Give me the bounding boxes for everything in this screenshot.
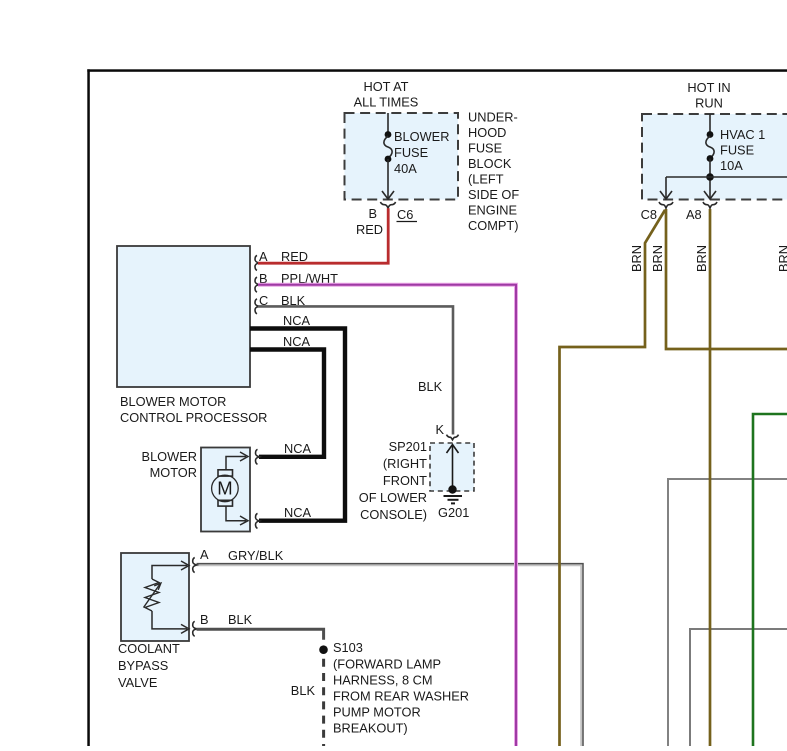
svg-text:BYPASS: BYPASS — [118, 658, 168, 673]
svg-text:BLK: BLK — [418, 379, 443, 394]
svg-text:HOT IN: HOT IN — [687, 80, 730, 95]
svg-text:B: B — [200, 612, 209, 627]
svg-text:G201: G201 — [438, 505, 469, 520]
svg-text:C8: C8 — [641, 207, 657, 222]
svg-text:NCA: NCA — [283, 334, 310, 349]
frame border left — [87, 69, 90, 746]
svg-text:PUMP MOTOR: PUMP MOTOR — [333, 705, 421, 720]
svg-text:S103: S103 — [333, 640, 363, 655]
HVAC fuse block box (dashed) — [642, 114, 787, 200]
svg-text:CONSOLE): CONSOLE) — [360, 507, 427, 522]
svg-text:CONTROL PROCESSOR: CONTROL PROCESSOR — [120, 410, 267, 425]
svg-text:BLOCK: BLOCK — [468, 156, 512, 171]
svg-text:COMPT): COMPT) — [468, 218, 518, 233]
svg-text:M: M — [217, 478, 232, 499]
svg-text:RED: RED — [356, 222, 383, 237]
wire GRY/BLK from valve pin A (horizontal, down right side) — [197, 564, 584, 746]
variable resistor in valve — [144, 561, 190, 633]
wire RED from fuse C6 to processor pin A — [258, 208, 388, 263]
svg-text:A: A — [259, 249, 268, 264]
svg-text:FROM REAR WASHER: FROM REAR WASHER — [333, 689, 469, 704]
splice S103 node — [291, 645, 328, 748]
wire PPL/WHT from processor pin B — [258, 285, 516, 746]
svg-text:FRONT: FRONT — [383, 473, 427, 488]
svg-text:A8: A8 — [686, 207, 702, 222]
svg-text:SIDE OF: SIDE OF — [468, 187, 519, 202]
svg-text:HVAC 1: HVAC 1 — [720, 127, 765, 142]
pin A of processor — [255, 249, 308, 270]
blower motor upper pin NCA — [256, 441, 312, 464]
svg-text:BLOWER: BLOWER — [142, 449, 197, 464]
fuse F1 BLOWER FUSE 40A — [382, 113, 449, 199]
svg-text:COOLANT: COOLANT — [118, 641, 180, 656]
motor M symbol — [212, 452, 248, 525]
junction node in fuse block — [660, 173, 787, 199]
wire BRN from A8 straight down — [709, 209, 712, 746]
svg-text:NCA: NCA — [284, 505, 311, 520]
label S103 (FORWARD LAMP HARNESS, 8 CM FROM REAR WASHER PUMP MOTOR BREAKOUT) — [333, 640, 469, 736]
label HOT AT ALL TIMES — [354, 79, 419, 110]
label HOT IN RUN — [687, 80, 730, 110]
blower motor control processor box — [117, 246, 267, 425]
splice wire with up arrow and ground dot — [447, 445, 459, 494]
connector A8 (female arc) — [686, 202, 717, 222]
svg-text:BREAKOUT): BREAKOUT) — [333, 721, 408, 736]
svg-text:HARNESS, 8 CM: HARNESS, 8 CM — [333, 673, 433, 688]
svg-text:(RIGHT: (RIGHT — [383, 456, 427, 471]
valve pin A — [193, 547, 284, 573]
svg-text:RUN: RUN — [695, 96, 723, 111]
valve pin B — [193, 612, 253, 636]
wire BLK from processor pin C to splice SP201 — [258, 306, 453, 434]
svg-text:BLOWER MOTOR: BLOWER MOTOR — [120, 394, 226, 409]
wire GRY entering right edge at y=479 turning down — [668, 479, 787, 746]
connector K (female arc) — [435, 422, 458, 440]
svg-text:10A: 10A — [720, 158, 743, 173]
frame border top — [87, 69, 787, 72]
svg-text:(FORWARD LAMP: (FORWARD LAMP — [333, 657, 441, 672]
svg-text:40A: 40A — [394, 161, 417, 176]
splice SP201 dashed box — [430, 443, 474, 491]
svg-text:ALL TIMES: ALL TIMES — [354, 95, 419, 110]
svg-text:BLK: BLK — [291, 683, 316, 698]
fuse F2 HVAC 1 FUSE 10A — [706, 114, 765, 198]
pin C of processor — [255, 293, 306, 314]
wire GRN entering right edge turning down — [753, 414, 787, 746]
svg-text:K: K — [435, 422, 444, 437]
svg-text:OF LOWER: OF LOWER — [359, 490, 427, 505]
svg-text:(LEFT: (LEFT — [468, 172, 504, 187]
svg-text:BRN: BRN — [629, 245, 644, 272]
svg-text:BLOWER: BLOWER — [394, 129, 449, 144]
wire NCA 2 from processor to blower motor upper pin — [250, 334, 324, 457]
svg-text:NCA: NCA — [284, 441, 311, 456]
wire GRY entering right edge at y=629 turning down — [690, 629, 787, 746]
blower motor box — [142, 448, 250, 532]
blower motor lower pin NCA — [256, 505, 312, 528]
coolant bypass valve box — [118, 553, 189, 690]
svg-text:C6: C6 — [397, 207, 413, 222]
label UNDERHOOD FUSE BLOCK (LEFT SIDE OF ENGINE COMPT) — [468, 110, 519, 234]
svg-text:FUSE: FUSE — [468, 141, 502, 156]
underhood fuse block box (dashed) — [345, 113, 459, 200]
ground G201 symbol — [438, 496, 469, 520]
svg-text:A: A — [200, 547, 209, 562]
svg-text:ENGINE: ENGINE — [468, 203, 517, 218]
svg-text:NCA: NCA — [283, 313, 310, 328]
svg-text:BRN: BRN — [776, 245, 787, 272]
wire BRN from C8 straight down, turning right — [666, 209, 787, 349]
connector C6 pin B (female arc) — [356, 202, 417, 237]
svg-text:SP201: SP201 — [389, 439, 427, 454]
svg-text:BLK: BLK — [228, 612, 253, 627]
svg-text:HOT AT: HOT AT — [363, 79, 408, 94]
svg-text:HOOD: HOOD — [468, 125, 506, 140]
wire BRN from C8 via diagonal (left branch) — [560, 210, 666, 746]
svg-text:UNDER-: UNDER- — [468, 110, 518, 125]
svg-text:BRN: BRN — [694, 245, 709, 272]
svg-text:B: B — [368, 206, 377, 221]
connector C8 (female arc) — [641, 202, 673, 222]
svg-text:MOTOR: MOTOR — [150, 465, 197, 480]
svg-text:BRN: BRN — [650, 245, 665, 272]
svg-text:GRY/BLK: GRY/BLK — [228, 548, 284, 563]
wire BLK from valve pin B to splice S103 — [197, 629, 324, 640]
pin B of processor — [255, 271, 338, 292]
wire NCA 1 from processor to blower motor lower pin — [250, 313, 345, 521]
svg-text:VALVE: VALVE — [118, 675, 157, 690]
svg-text:FUSE: FUSE — [394, 145, 428, 160]
label SP201 (RIGHT FRONT OF LOWER CONSOLE) — [359, 439, 427, 522]
svg-text:FUSE: FUSE — [720, 143, 754, 158]
svg-text:RED: RED — [281, 249, 308, 264]
